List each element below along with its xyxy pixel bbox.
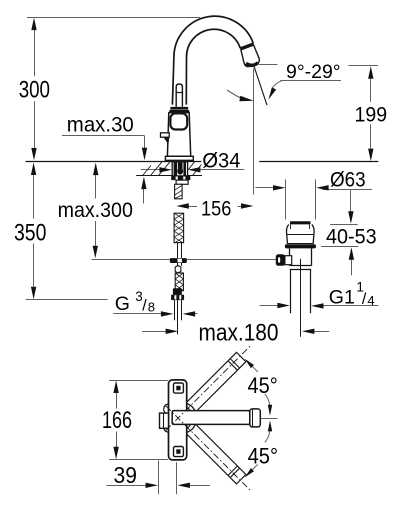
svg-text:G: G <box>115 293 130 315</box>
svg-text:max.180: max.180 <box>199 320 279 347</box>
svg-text:45°: 45° <box>248 373 278 398</box>
svg-text:G1: G1 <box>329 287 355 309</box>
svg-text:350: 350 <box>14 219 46 246</box>
svg-text:166: 166 <box>102 407 132 434</box>
svg-text:4: 4 <box>367 293 374 308</box>
svg-text:/: / <box>362 291 367 308</box>
svg-text:300: 300 <box>19 77 50 104</box>
svg-text:199: 199 <box>355 102 388 126</box>
svg-text:Ø63: Ø63 <box>330 169 366 192</box>
svg-text:/: / <box>142 298 147 315</box>
svg-text:39: 39 <box>114 462 137 488</box>
svg-text:Ø34: Ø34 <box>202 150 240 173</box>
svg-text:40-53: 40-53 <box>326 226 377 249</box>
svg-text:9°-29°: 9°-29° <box>286 61 341 83</box>
svg-text:max.300: max.300 <box>58 199 133 222</box>
svg-text:8: 8 <box>148 299 155 314</box>
svg-text:45°: 45° <box>248 443 278 468</box>
svg-text:max.30: max.30 <box>67 113 134 136</box>
svg-text:156: 156 <box>201 196 231 220</box>
